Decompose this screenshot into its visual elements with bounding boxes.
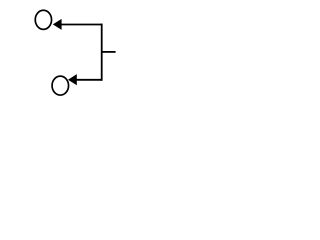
- arrowhead into node A: [53, 19, 62, 30]
- node bubble A (top circle): [35, 10, 51, 29]
- node bubble B (bottom circle): [52, 76, 69, 95]
- bus input stub (middle tick): [102, 51, 116, 53]
- wire: node A to bus: [61, 24, 103, 26]
- wire: bus to node B: [76, 79, 102, 81]
- arrowhead into node B: [68, 74, 77, 85]
- wire: bus vertical segment: [101, 24, 103, 81]
